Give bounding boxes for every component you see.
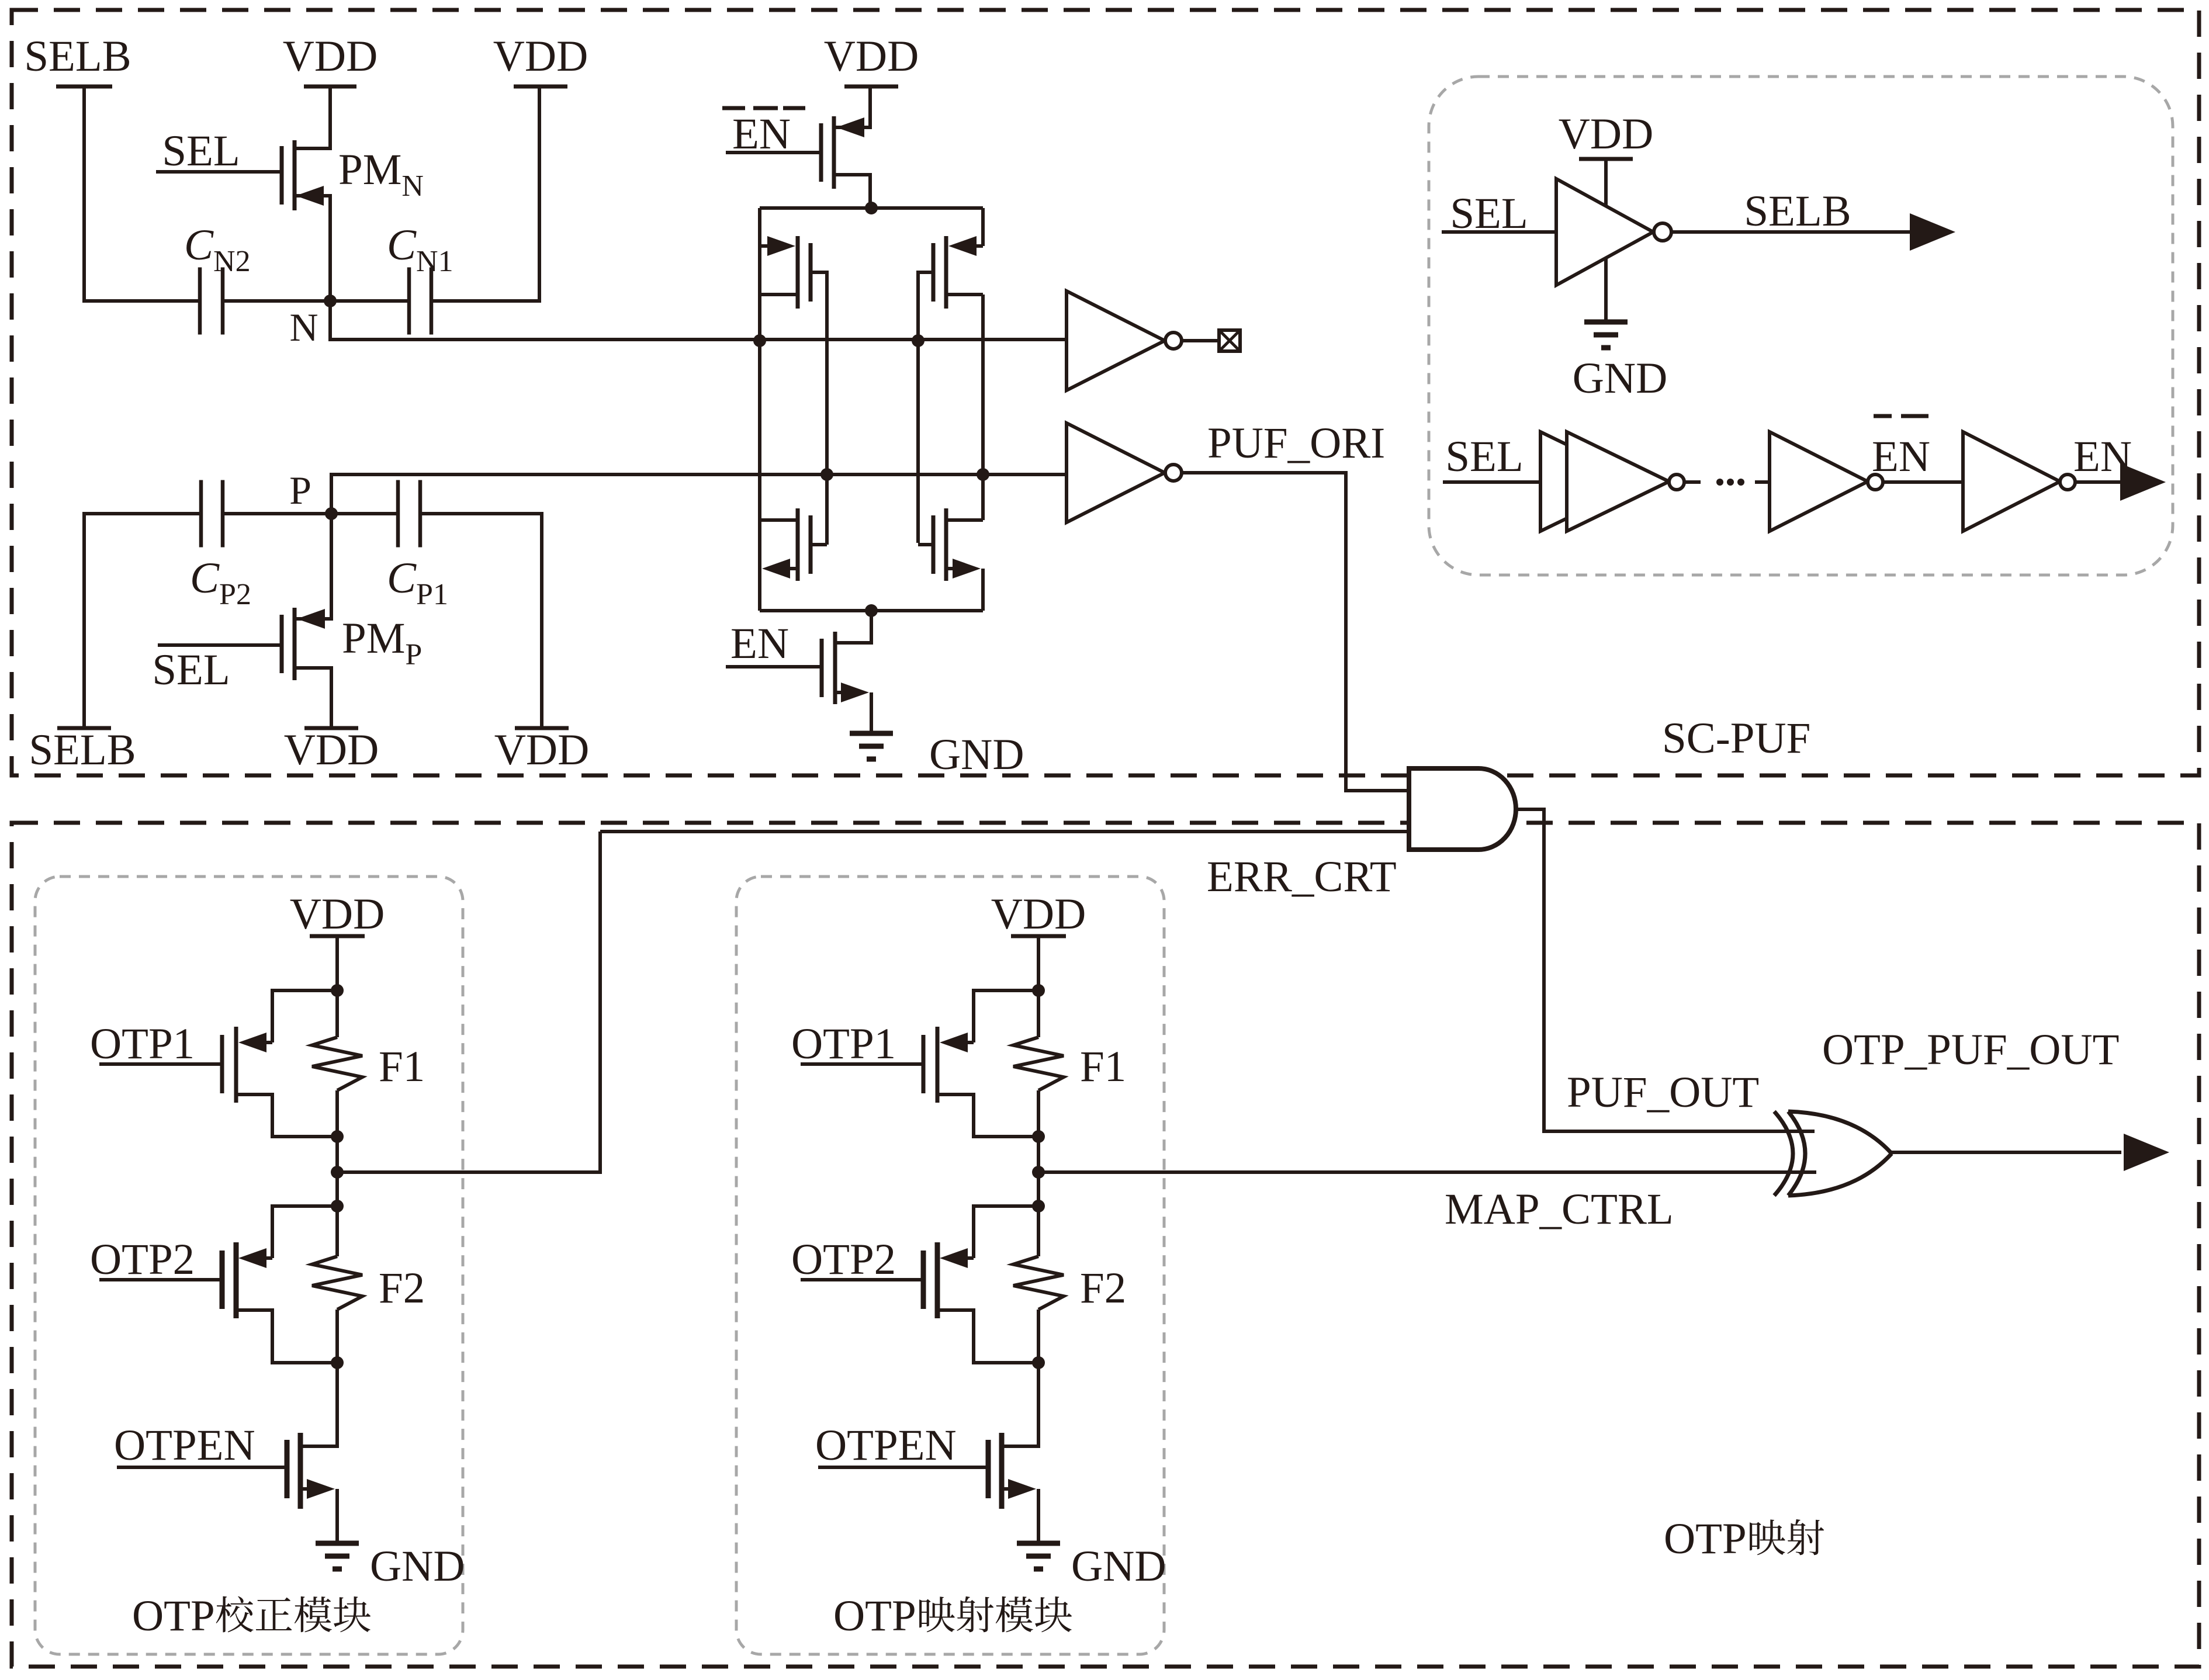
svg-text:SEL: SEL (162, 127, 240, 175)
svg-text:SEL: SEL (152, 646, 230, 694)
inverter delay chain stage 3 (1963, 432, 2060, 531)
svg-text:F1: F1 (379, 1042, 425, 1091)
wire MAP_CTRL from OTP mapping node to XOR input B (1038, 1170, 1816, 1174)
wire node N to C_N1 (330, 299, 409, 303)
svg-text:OTP2: OTP2 (791, 1235, 896, 1284)
junction F2 bottom (OTP mapping module) (1032, 1356, 1045, 1369)
svg-text:F2: F2 (379, 1264, 425, 1312)
svg-text:SEL: SEL (1450, 189, 1528, 238)
wire SEL input to SELB inverter (1442, 230, 1556, 234)
ground symbol (OTP mapping module) (1017, 1541, 1060, 1546)
wire C_P2 to node P (223, 512, 331, 515)
net SELB rail bottom-left (57, 726, 111, 730)
wire VDD to stack (OTP mapping module) (1037, 936, 1040, 990)
arrow SELB output (1910, 213, 1955, 251)
wire latch common source rail (760, 206, 983, 210)
arrow EN output (2120, 463, 2166, 501)
wire P line to latch and inverter (331, 474, 1067, 514)
wire PM_P drain to VDD rail 3 (295, 668, 331, 728)
svg-text:F1: F1 (1080, 1042, 1126, 1091)
junction right column on P line (977, 468, 989, 481)
resistor F2 (OTP mapping module) (1013, 1256, 1064, 1310)
wire EN NMOS source to GND (870, 692, 873, 733)
svg-text:OTPEN: OTPEN (815, 1421, 957, 1470)
junction left column on N line (753, 334, 766, 347)
transistor OTPEN NMOS (OTP correction module) (285, 1440, 290, 1498)
resistor F2 (OTP correction module) (312, 1256, 362, 1310)
wire OTPEN source to GND (OTP correction module) (335, 1489, 339, 1543)
capacitor C_N1 (407, 268, 411, 335)
svg-text:PUF_OUT: PUF_OUT (1567, 1068, 1759, 1117)
arrow OTP_PUF_OUT output (2124, 1134, 2169, 1171)
wire left output column (758, 246, 761, 569)
svg-text:OTP: OTP (1664, 1515, 1747, 1563)
junction F2 top (OTP correction module) (331, 1200, 344, 1213)
transistor PM_N (PMOS) (280, 146, 284, 205)
svg-text:VDD: VDD (284, 726, 379, 774)
svg-text:OTPEN: OTPEN (114, 1421, 255, 1470)
svg-text:SC-PUF: SC-PUF (1662, 714, 1810, 763)
ellipsis dots (1716, 479, 1723, 486)
junction right gate column on N line (912, 334, 925, 347)
capacitor C_P1 (396, 480, 400, 548)
wire left branch down (758, 208, 761, 246)
wire latch right PMOS gate to N line (918, 272, 933, 543)
svg-text:VDD: VDD (1559, 110, 1654, 158)
transistor latch left PMOS (809, 243, 813, 302)
wire EN output (2075, 480, 2121, 484)
ground symbol (latch) (850, 731, 893, 736)
wire EN-bar segment (1883, 480, 1963, 484)
resistor F1 (OTP mapping module) (1013, 1037, 1064, 1090)
svg-text:OTP2: OTP2 (90, 1235, 195, 1284)
junction F1 bottom (OTP correction module) (331, 1130, 344, 1143)
wire OTPEN source to GND (OTP mapping module) (1037, 1489, 1040, 1543)
svg-text:GND: GND (929, 730, 1024, 779)
junction output node (OTP correction module) (331, 1166, 344, 1179)
transistor OTP1 PMOS (OTP correction module) (272, 990, 337, 1042)
wire stack middle (OTP correction module) (335, 1137, 339, 1206)
SC-PUF outer dashed box (12, 10, 2199, 775)
wire right output column (981, 295, 985, 520)
svg-text:GND: GND (1573, 354, 1668, 403)
inverter SEL to SELB (1556, 179, 1653, 285)
wire OTP1 drain to F1 bottom (OTP mapping module) (937, 1094, 1038, 1137)
transistor OTP1 PMOS (OTP mapping module) (974, 990, 1038, 1042)
transistor OTP2 PMOS (OTP correction module) (272, 1206, 337, 1258)
svg-text:GND: GND (1071, 1542, 1166, 1591)
svg-text:VDD: VDD (494, 726, 590, 774)
transistor EN-bar PMOS header (819, 123, 823, 182)
svg-text:SEL: SEL (1445, 432, 1523, 481)
net VDD rail 3 (304, 726, 358, 730)
test pad symbol (1219, 330, 1240, 351)
svg-text:OTP1: OTP1 (90, 1020, 195, 1068)
svg-text:ERR_CRT: ERR_CRT (1207, 853, 1397, 901)
label EN-bar overline dashes (722, 106, 745, 110)
wire PM_N drain to node N (295, 196, 330, 301)
label EN-bar (chain) overline dashes (1874, 414, 1892, 418)
inverter upper (N line to test pad) (1067, 291, 1165, 390)
transistor latch right NMOS (932, 515, 936, 574)
wire SELB to C_N2 (84, 86, 200, 301)
junction F1 top (OTP mapping module) (1032, 984, 1045, 997)
wire OTP2 drain to F2 bottom (OTP mapping module) (937, 1310, 1038, 1363)
wire EN-bar PMOS drain to latch source rail (834, 175, 870, 208)
inverter delay chain stage 2 (1770, 432, 1868, 531)
svg-text:PUF_ORI: PUF_ORI (1207, 419, 1385, 467)
wire OTP correction output to AND gate input B (600, 830, 1409, 833)
junction F2 top (OTP mapping module) (1032, 1200, 1045, 1213)
wire N line to latch and inverter (330, 301, 1067, 340)
wire SELB output (1671, 230, 1910, 234)
svg-text:EN: EN (1872, 432, 1930, 481)
wire PUF_ORI to AND gate input A (1182, 473, 1409, 791)
resistor F1 (OTP correction module) (312, 1037, 362, 1090)
node P junction (325, 507, 338, 520)
junction output node (OTP mapping module) (1032, 1166, 1045, 1179)
wire inverter to test pad (1182, 339, 1219, 342)
AND gate ERR_CRT (1409, 768, 1516, 850)
ground symbol (OTP correction module) (316, 1541, 359, 1546)
svg-text:VDD: VDD (991, 890, 1086, 938)
svg-text:GND: GND (370, 1542, 465, 1591)
wire OTP2 drain to F2 bottom (OTP correction module) (236, 1310, 337, 1363)
transistor PM_P (PMOS) (280, 615, 284, 673)
wire node P to C_P1 (331, 512, 398, 515)
capacitor C_N2 (198, 268, 202, 335)
wire VDD to stack (OTP correction module) (335, 936, 339, 990)
svg-text:OTP1: OTP1 (791, 1020, 896, 1068)
wire NMOS sources to common foot rail (758, 569, 761, 611)
transistor OTPEN NMOS (OTP mapping module) (986, 1440, 991, 1498)
svg-text:SELB: SELB (24, 32, 131, 81)
svg-text:OTP: OTP (833, 1592, 916, 1640)
wire XOR output (1892, 1151, 2121, 1154)
svg-text:EN: EN (730, 619, 789, 668)
ground symbol (SELB inverter) (1584, 320, 1628, 325)
wire stage1 to ellipsis (1684, 480, 1701, 484)
svg-text:P: P (289, 468, 311, 512)
wire latch left PMOS gate to P line (811, 272, 827, 474)
wire GND stem of SELB inverter (1604, 258, 1608, 322)
transistor latch right PMOS (932, 243, 936, 302)
XOR gate OTP_PUF_OUT (1774, 1111, 1793, 1196)
wire EN-bar PMOS source to VDD (834, 86, 870, 127)
transistor EN NMOS (foot switch) (820, 639, 824, 697)
transistor OTP2 PMOS (OTP mapping module) (974, 1206, 1038, 1258)
svg-text:SELB: SELB (1744, 187, 1851, 235)
transistor latch left NMOS (809, 515, 813, 574)
capacitor C_P2 (199, 480, 203, 548)
svg-text:VDD: VDD (283, 32, 378, 81)
junction latch foot rail (865, 604, 878, 617)
wire right branch down (981, 208, 985, 246)
svg-text:F2: F2 (1080, 1264, 1126, 1312)
net VDD rail 4 (515, 726, 569, 730)
wire VDD stem into inverter (1604, 159, 1608, 206)
junction F1 top (OTP correction module) (331, 984, 344, 997)
svg-text:OTP_PUF_OUT: OTP_PUF_OUT (1822, 1026, 2119, 1074)
node N junction (324, 295, 337, 307)
wire C_N2 to node N (223, 299, 330, 303)
svg-text:VDD: VDD (290, 890, 385, 938)
svg-text:VDD: VDD (493, 32, 588, 81)
wire PM_P source to node P (295, 514, 331, 619)
wire F2 bottom to OTPEN drain (OTP mapping module) (1002, 1363, 1038, 1446)
inverter delay chain stage 1 (double triangle) (1540, 432, 1643, 531)
svg-text:OTP: OTP (132, 1592, 215, 1640)
svg-text:SELB: SELB (29, 726, 136, 774)
wire SEL input to delay chain (1443, 480, 1541, 484)
inverter lower (P line to PUF_ORI) (1067, 423, 1165, 522)
svg-text:MAP_CTRL: MAP_CTRL (1445, 1185, 1674, 1234)
SC-PUF inner gray dashed box (1429, 77, 2173, 575)
junction left gate column on P line (820, 468, 833, 481)
junction F1 bottom (OTP mapping module) (1032, 1130, 1045, 1143)
svg-text:VDD: VDD (824, 32, 919, 81)
svg-text:N: N (289, 305, 318, 349)
wire stack middle (OTP mapping module) (1037, 1137, 1040, 1206)
OTP correction module gray dashed box (35, 877, 463, 1654)
junction latch source rail (865, 202, 878, 214)
OTP mapping module gray dashed box (736, 877, 1164, 1654)
wire VDD to PM_N source (295, 86, 330, 148)
OTP mapping outer dashed box (12, 823, 2199, 1667)
wire C_N1 to VDD rail 2 (431, 86, 539, 301)
wire AND output to XOR input A (PUF_OUT) (1516, 809, 1815, 1131)
wire ellipsis to stage 2 (1755, 480, 1770, 484)
wire OTP1 drain to F1 bottom (OTP correction module) (236, 1094, 337, 1137)
wire F2 bottom to OTPEN drain (OTP correction module) (300, 1363, 337, 1446)
wire SELB2 to C_P2 (84, 514, 201, 728)
wire C_P1 to VDD rail 4 (420, 514, 542, 728)
junction F2 bottom (OTP correction module) (331, 1356, 344, 1369)
wire latch foot rail (760, 609, 983, 612)
wire OTP correction node to AND input riser (337, 832, 600, 1172)
